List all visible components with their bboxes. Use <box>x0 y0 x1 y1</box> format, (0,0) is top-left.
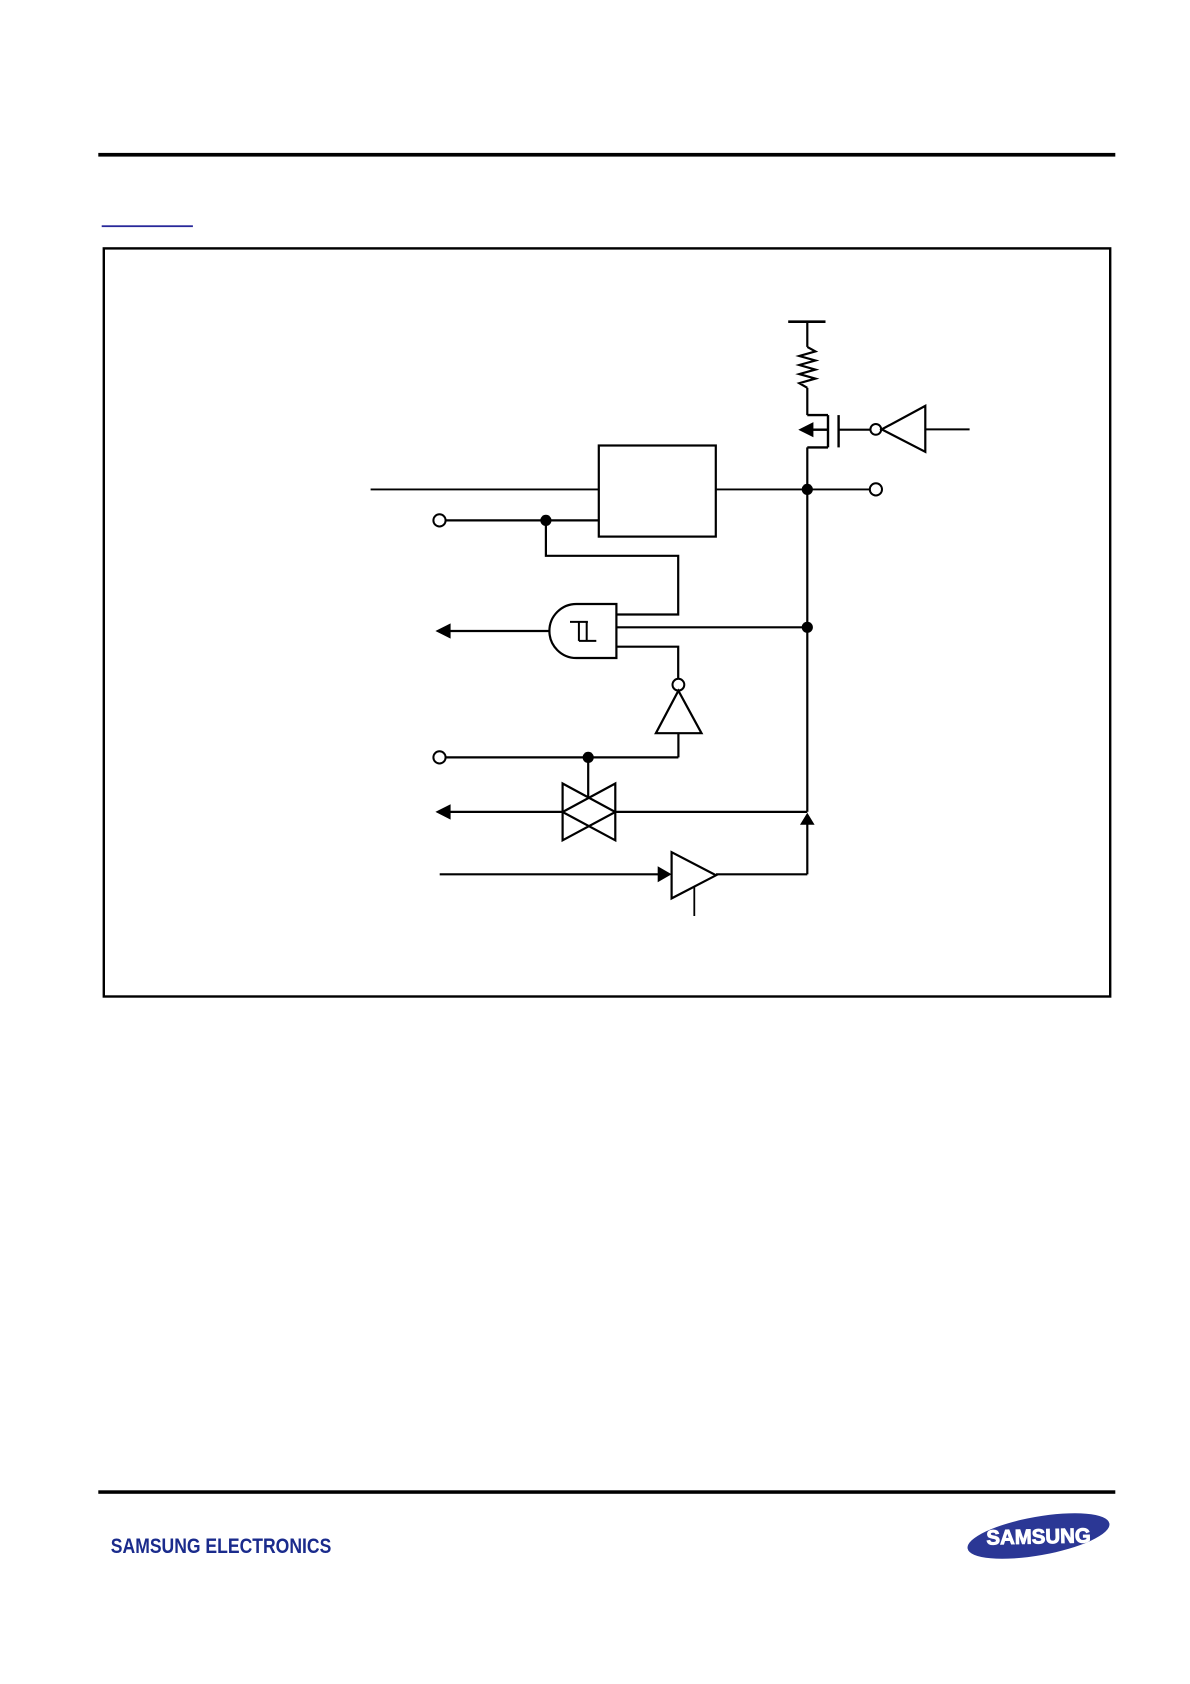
svg-text:SAMSUNG: SAMSUNG <box>986 1524 1091 1549</box>
svg-text:SAMSUNG ELECTRONICS: SAMSUNG ELECTRONICS <box>111 1535 332 1558</box>
